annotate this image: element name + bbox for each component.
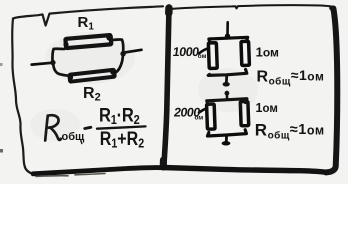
svg-text:R1+R2: R1+R2 <box>100 127 145 150</box>
svg-text:1000: 1000 <box>172 45 200 59</box>
svg-text:1ом: 1ом <box>256 101 278 115</box>
svg-text:ом: ом <box>198 53 207 60</box>
svg-text:1ом: 1ом <box>256 45 279 60</box>
svg-text:ом: ом <box>195 115 204 122</box>
